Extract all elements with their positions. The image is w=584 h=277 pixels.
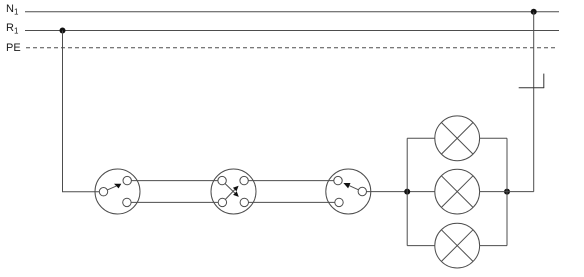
wire from R1 down to switch S1 [63, 31, 100, 192]
contact S2 top-right [240, 176, 248, 184]
contact S3 bottom-left [335, 198, 343, 206]
wire right lamp rail [506, 138, 508, 245]
wire top lamp stubs [407, 137, 435, 139]
wire top row S1-S2 [127, 180, 222, 182]
wire top row S2-S3 [244, 180, 338, 182]
contact S3 right [358, 187, 366, 195]
contact S2 bottom-right [240, 198, 248, 206]
lamp E3 (bottom) [435, 223, 480, 268]
two-way switch S3 [326, 169, 371, 214]
lamp E1 (top) [435, 116, 480, 161]
switch symbol on N1 drop [519, 87, 545, 89]
wire N1 rail [25, 11, 559, 13]
arrowhead S3 [343, 183, 350, 188]
wire left lamp rail [406, 138, 408, 245]
two-way switch S1 [95, 169, 140, 214]
contact S2 bottom-left [218, 198, 226, 206]
intermediate switch S2 [211, 169, 256, 214]
node junction on N1 [531, 9, 537, 15]
wire bottom row S1-S2 [127, 201, 222, 203]
wire R1 rail [25, 30, 559, 32]
contact S2 top-left [218, 176, 226, 184]
wire PE rail (dashed) [26, 47, 558, 49]
arrowhead S2 up [233, 186, 239, 192]
node junction on R1 [60, 28, 66, 34]
contact S3 top-left [334, 176, 342, 184]
wire N1 drop to lamps [533, 12, 535, 192]
svg-text:PE: PE [6, 42, 21, 54]
lamp E2 (middle) [435, 169, 480, 214]
node junction right lamp rail [504, 189, 510, 195]
contact S1 bottom-right [123, 198, 131, 206]
wire S3 to lamp group [362, 191, 435, 193]
contact S1 left [99, 188, 107, 196]
node junction left lamp rail [404, 189, 410, 195]
wire bottom row S2-S3 [244, 201, 339, 203]
arrowhead S1 [114, 184, 121, 189]
contact S1 top-right [123, 176, 131, 184]
wire middle lamp right stub [480, 191, 534, 193]
arrowhead S2 down [233, 191, 239, 197]
wire bottom lamp stubs [407, 245, 435, 247]
